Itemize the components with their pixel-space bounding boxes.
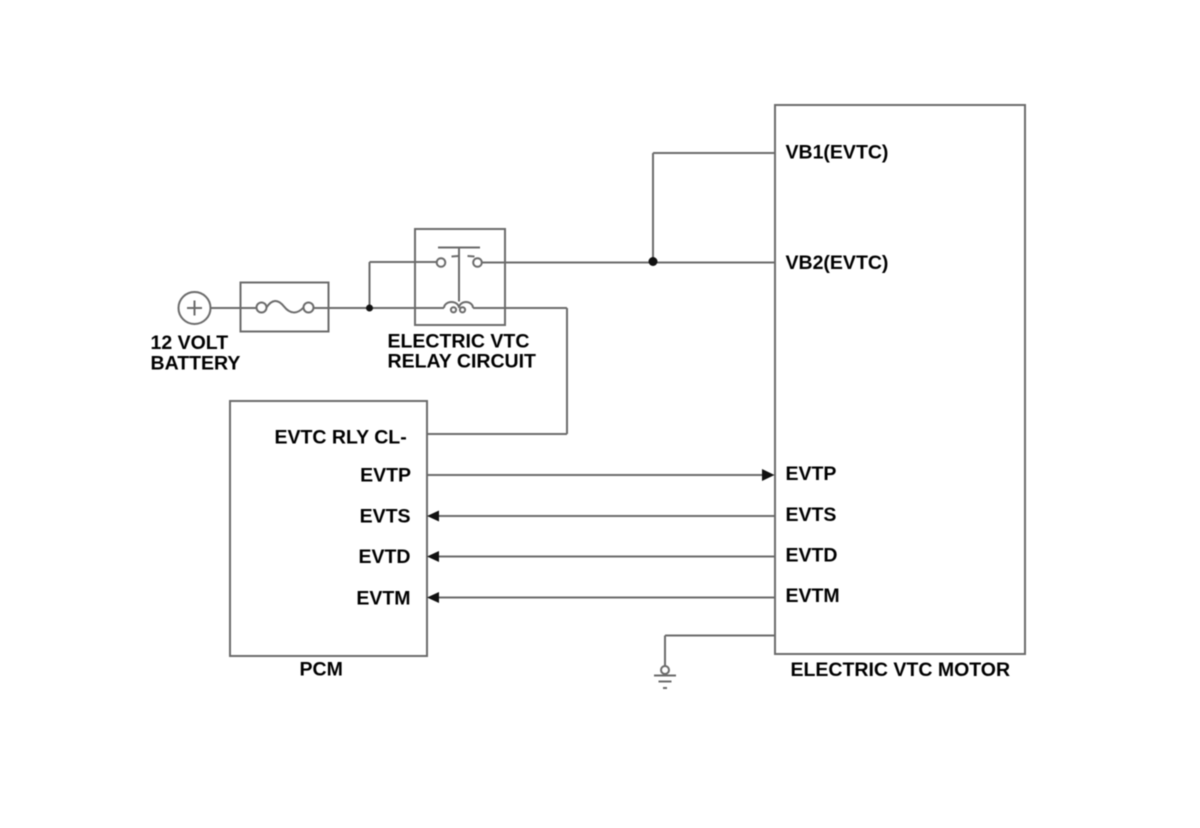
svg-text:VB1(EVTC): VB1(EVTC) bbox=[786, 142, 889, 164]
svg-text:EVTS: EVTS bbox=[360, 505, 411, 527]
svg-text:12 VOLT: 12 VOLT bbox=[151, 332, 229, 354]
svg-text:VB2(EVTC): VB2(EVTC) bbox=[786, 252, 889, 274]
svg-text:ELECTRIC VTC: ELECTRIC VTC bbox=[388, 331, 530, 353]
svg-text:EVTD: EVTD bbox=[358, 546, 410, 568]
svg-text:EVTP: EVTP bbox=[360, 464, 411, 486]
svg-text:BATTERY: BATTERY bbox=[151, 353, 241, 375]
svg-text:EVTP: EVTP bbox=[786, 463, 837, 485]
svg-text:RELAY CIRCUIT: RELAY CIRCUIT bbox=[388, 351, 537, 373]
svg-text:PCM: PCM bbox=[300, 659, 343, 681]
svg-text:ELECTRIC VTC MOTOR: ELECTRIC VTC MOTOR bbox=[791, 659, 1011, 681]
svg-text:EVTC RLY CL-: EVTC RLY CL- bbox=[275, 427, 407, 449]
svg-text:EVTD: EVTD bbox=[786, 544, 838, 566]
svg-text:EVTM: EVTM bbox=[356, 588, 410, 610]
svg-text:EVTS: EVTS bbox=[786, 504, 837, 526]
svg-text:EVTM: EVTM bbox=[786, 585, 840, 607]
